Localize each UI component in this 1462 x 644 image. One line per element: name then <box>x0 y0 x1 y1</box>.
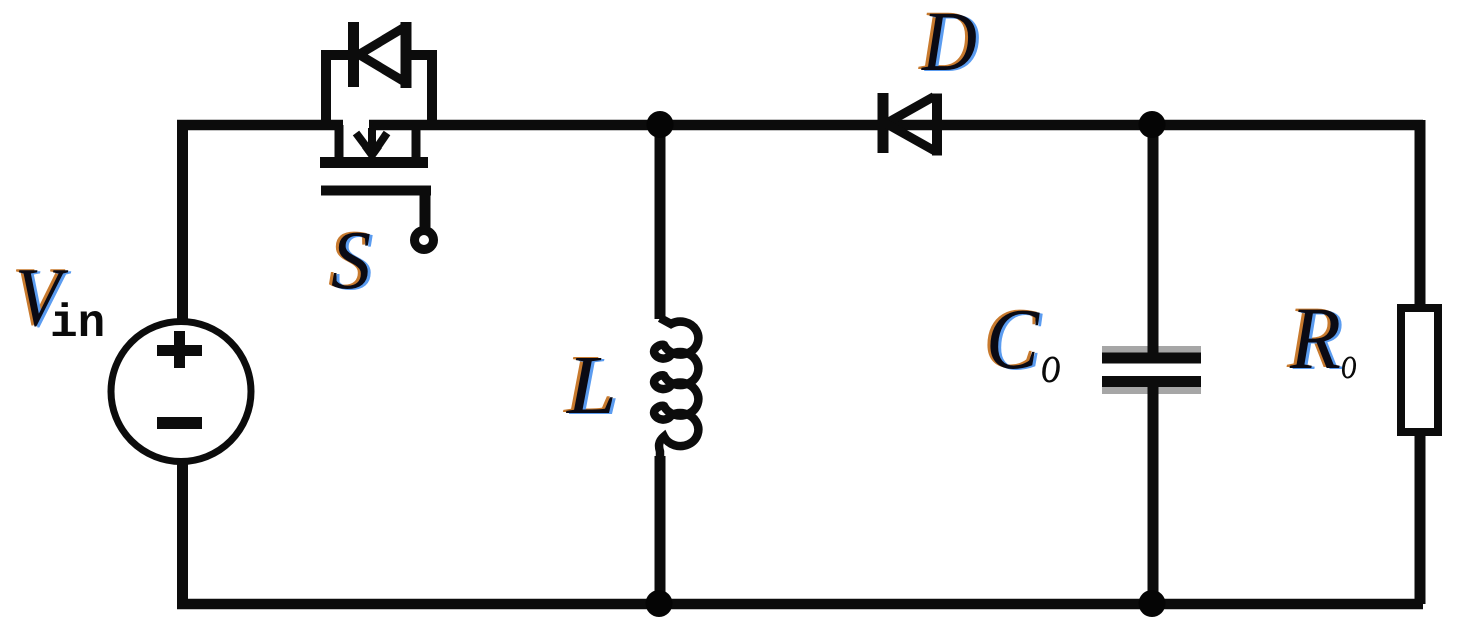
svg-text:o: o <box>1341 338 1357 388</box>
svg-text:D: D <box>921 0 977 89</box>
svg-text:S: S <box>331 214 371 307</box>
svg-text:o: o <box>1041 334 1061 394</box>
svg-text:in: in <box>50 298 105 350</box>
svg-text:R: R <box>1289 290 1341 388</box>
svg-text:C: C <box>986 290 1040 387</box>
svg-text:L: L <box>566 339 617 432</box>
